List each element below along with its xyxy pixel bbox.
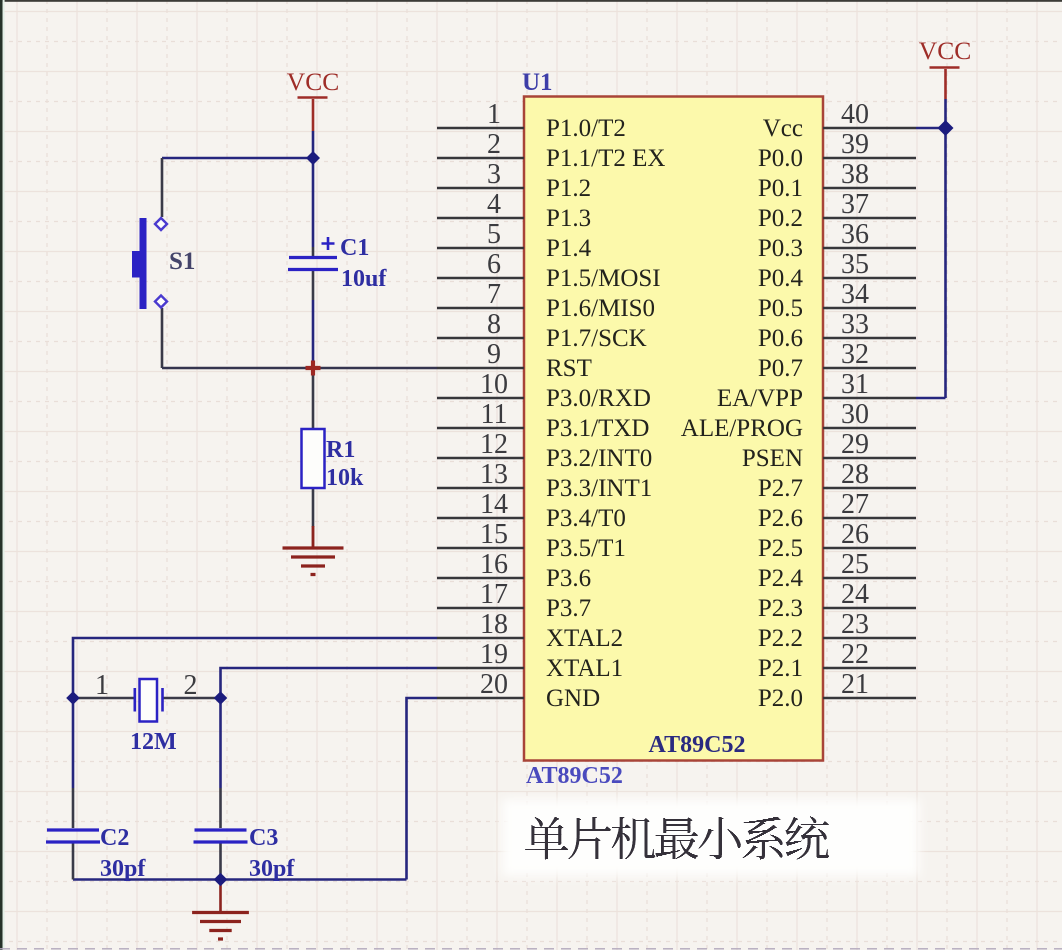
svg-text:P2.3: P2.3 bbox=[758, 595, 803, 622]
svg-text:26: 26 bbox=[841, 519, 869, 550]
svg-text:C3: C3 bbox=[249, 825, 278, 851]
svg-text:10uf: 10uf bbox=[341, 266, 387, 292]
svg-text:13: 13 bbox=[480, 459, 508, 490]
svg-text:P1.1/T2 EX: P1.1/T2 EX bbox=[546, 145, 665, 172]
svg-text:RST: RST bbox=[546, 355, 592, 382]
svg-text:21: 21 bbox=[841, 669, 869, 700]
svg-text:10: 10 bbox=[480, 369, 508, 400]
svg-text:P2.1: P2.1 bbox=[758, 655, 803, 682]
svg-text:P2.5: P2.5 bbox=[758, 535, 803, 562]
svg-text:12M: 12M bbox=[130, 729, 177, 755]
svg-text:25: 25 bbox=[841, 549, 869, 580]
svg-text:1: 1 bbox=[95, 670, 109, 701]
svg-text:P0.0: P0.0 bbox=[758, 145, 803, 172]
svg-text:P3.7: P3.7 bbox=[546, 595, 591, 622]
svg-text:P1.3: P1.3 bbox=[546, 205, 591, 232]
svg-text:23: 23 bbox=[841, 609, 869, 640]
svg-text:30pf: 30pf bbox=[100, 856, 146, 882]
svg-text:P1.2: P1.2 bbox=[546, 175, 591, 202]
svg-text:P2.4: P2.4 bbox=[758, 565, 804, 592]
svg-text:AT89C52: AT89C52 bbox=[649, 732, 746, 758]
svg-text:P0.3: P0.3 bbox=[758, 235, 803, 262]
svg-text:30: 30 bbox=[841, 399, 869, 430]
svg-text:P0.5: P0.5 bbox=[758, 295, 803, 322]
svg-text:S1: S1 bbox=[169, 248, 195, 275]
svg-text:28: 28 bbox=[841, 459, 869, 490]
svg-text:40: 40 bbox=[841, 99, 869, 130]
svg-text:P1.6/MIS0: P1.6/MIS0 bbox=[546, 295, 655, 322]
svg-text:2: 2 bbox=[487, 129, 501, 160]
svg-text:18: 18 bbox=[480, 609, 508, 640]
svg-text:P2.2: P2.2 bbox=[758, 625, 803, 652]
svg-text:P3.0/RXD: P3.0/RXD bbox=[546, 385, 651, 412]
svg-text:P2.0: P2.0 bbox=[758, 685, 803, 712]
svg-text:31: 31 bbox=[841, 369, 869, 400]
svg-text:P0.6: P0.6 bbox=[758, 325, 803, 352]
svg-text:P1.5/MOSI: P1.5/MOSI bbox=[546, 265, 661, 292]
svg-text:5: 5 bbox=[487, 219, 501, 250]
svg-text:29: 29 bbox=[841, 429, 869, 460]
svg-text:P3.3/INT1: P3.3/INT1 bbox=[546, 475, 652, 502]
svg-text:2: 2 bbox=[184, 670, 198, 701]
svg-text:10k: 10k bbox=[326, 465, 364, 491]
svg-text:XTAL2: XTAL2 bbox=[546, 625, 623, 652]
svg-text:30pf: 30pf bbox=[249, 856, 295, 882]
svg-text:9: 9 bbox=[487, 339, 501, 370]
svg-text:PSEN: PSEN bbox=[742, 445, 803, 472]
svg-text:32: 32 bbox=[841, 339, 869, 370]
svg-text:24: 24 bbox=[841, 579, 869, 610]
svg-text:VCC: VCC bbox=[919, 36, 971, 65]
svg-text:GND: GND bbox=[546, 685, 600, 712]
svg-text:C2: C2 bbox=[100, 825, 129, 851]
svg-text:ALE/PROG: ALE/PROG bbox=[681, 415, 803, 442]
svg-text:11: 11 bbox=[481, 399, 508, 430]
svg-text:4: 4 bbox=[487, 189, 501, 220]
svg-text:P3.5/T1: P3.5/T1 bbox=[546, 535, 626, 562]
svg-text:P0.4: P0.4 bbox=[758, 265, 804, 292]
svg-text:Vcc: Vcc bbox=[763, 115, 803, 142]
svg-text:EA/VPP: EA/VPP bbox=[717, 385, 803, 412]
svg-text:P1.7/SCK: P1.7/SCK bbox=[546, 325, 647, 352]
svg-text:34: 34 bbox=[841, 279, 869, 310]
svg-text:39: 39 bbox=[841, 129, 869, 160]
svg-text:8: 8 bbox=[487, 309, 501, 340]
svg-text:P2.6: P2.6 bbox=[758, 505, 803, 532]
svg-text:P0.7: P0.7 bbox=[758, 355, 803, 382]
svg-text:AT89C52: AT89C52 bbox=[526, 763, 623, 789]
svg-text:12: 12 bbox=[480, 429, 508, 460]
svg-text:P1.0/T2: P1.0/T2 bbox=[546, 115, 626, 142]
svg-text:P1.4: P1.4 bbox=[546, 235, 592, 262]
svg-text:17: 17 bbox=[480, 579, 508, 610]
svg-text:C1: C1 bbox=[340, 235, 369, 261]
svg-text:R1: R1 bbox=[326, 437, 355, 463]
svg-text:35: 35 bbox=[841, 249, 869, 280]
svg-text:U1: U1 bbox=[522, 69, 553, 96]
svg-text:16: 16 bbox=[480, 549, 508, 580]
svg-text:1: 1 bbox=[487, 99, 501, 130]
svg-text:20: 20 bbox=[480, 669, 508, 700]
svg-text:3: 3 bbox=[487, 159, 501, 190]
svg-text:VCC: VCC bbox=[287, 67, 339, 96]
svg-text:P3.2/INT0: P3.2/INT0 bbox=[546, 445, 652, 472]
svg-text:P0.2: P0.2 bbox=[758, 205, 803, 232]
svg-text:P3.4/T0: P3.4/T0 bbox=[546, 505, 626, 532]
svg-text:15: 15 bbox=[480, 519, 508, 550]
svg-text:P3.1/TXD: P3.1/TXD bbox=[546, 415, 649, 442]
svg-text:P2.7: P2.7 bbox=[758, 475, 803, 502]
svg-text:XTAL1: XTAL1 bbox=[546, 655, 623, 682]
svg-text:19: 19 bbox=[480, 639, 508, 670]
svg-text:7: 7 bbox=[487, 279, 501, 310]
svg-text:P0.1: P0.1 bbox=[758, 175, 803, 202]
svg-text:33: 33 bbox=[841, 309, 869, 340]
svg-text:38: 38 bbox=[841, 159, 869, 190]
svg-text:37: 37 bbox=[841, 189, 869, 220]
svg-text:22: 22 bbox=[841, 639, 869, 670]
svg-text:36: 36 bbox=[841, 219, 869, 250]
svg-text:6: 6 bbox=[487, 249, 501, 280]
svg-text:P3.6: P3.6 bbox=[546, 565, 591, 592]
svg-text:14: 14 bbox=[480, 489, 508, 520]
svg-text:27: 27 bbox=[841, 489, 869, 520]
